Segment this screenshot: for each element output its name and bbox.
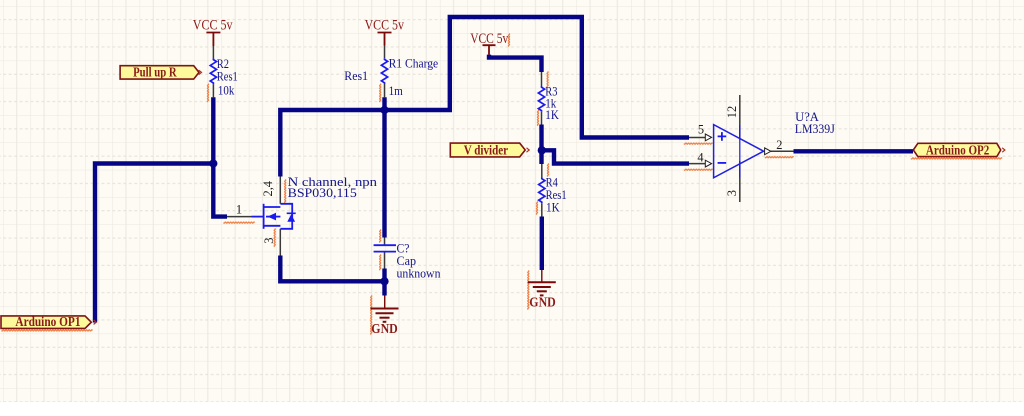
svg-text:12: 12 bbox=[725, 106, 739, 118]
svg-text:V divider: V divider bbox=[464, 142, 508, 157]
svg-text:Res1: Res1 bbox=[344, 68, 368, 83]
svg-text:unknown: unknown bbox=[397, 266, 441, 281]
svg-text:5: 5 bbox=[698, 123, 704, 137]
svg-text:LM339J: LM339J bbox=[795, 121, 835, 136]
svg-text:10k: 10k bbox=[218, 83, 235, 98]
svg-text:3: 3 bbox=[262, 238, 276, 244]
svg-text:R1 Charge: R1 Charge bbox=[389, 55, 439, 70]
svg-text:3: 3 bbox=[725, 190, 739, 196]
svg-text:Res1: Res1 bbox=[217, 69, 238, 84]
svg-text:Arduino OP2: Arduino OP2 bbox=[926, 143, 990, 158]
svg-text:Pull up R: Pull up R bbox=[133, 64, 177, 79]
svg-text:1m: 1m bbox=[389, 83, 403, 98]
svg-text:2: 2 bbox=[776, 138, 782, 152]
svg-text:4: 4 bbox=[697, 150, 703, 164]
svg-text:VCC 5v: VCC 5v bbox=[193, 18, 233, 34]
svg-text:VCC 5v: VCC 5v bbox=[365, 17, 405, 33]
svg-text:1: 1 bbox=[236, 202, 242, 216]
svg-text:VCC 5v: VCC 5v bbox=[470, 31, 508, 47]
svg-text:GND: GND bbox=[371, 321, 398, 336]
svg-text:BSP030,115: BSP030,115 bbox=[288, 185, 357, 200]
svg-text:1K: 1K bbox=[546, 200, 560, 215]
svg-text:2,4: 2,4 bbox=[261, 181, 275, 197]
svg-text:Arduino OP1: Arduino OP1 bbox=[15, 314, 80, 329]
svg-text:1K: 1K bbox=[545, 107, 559, 122]
svg-text:GND: GND bbox=[529, 295, 556, 310]
